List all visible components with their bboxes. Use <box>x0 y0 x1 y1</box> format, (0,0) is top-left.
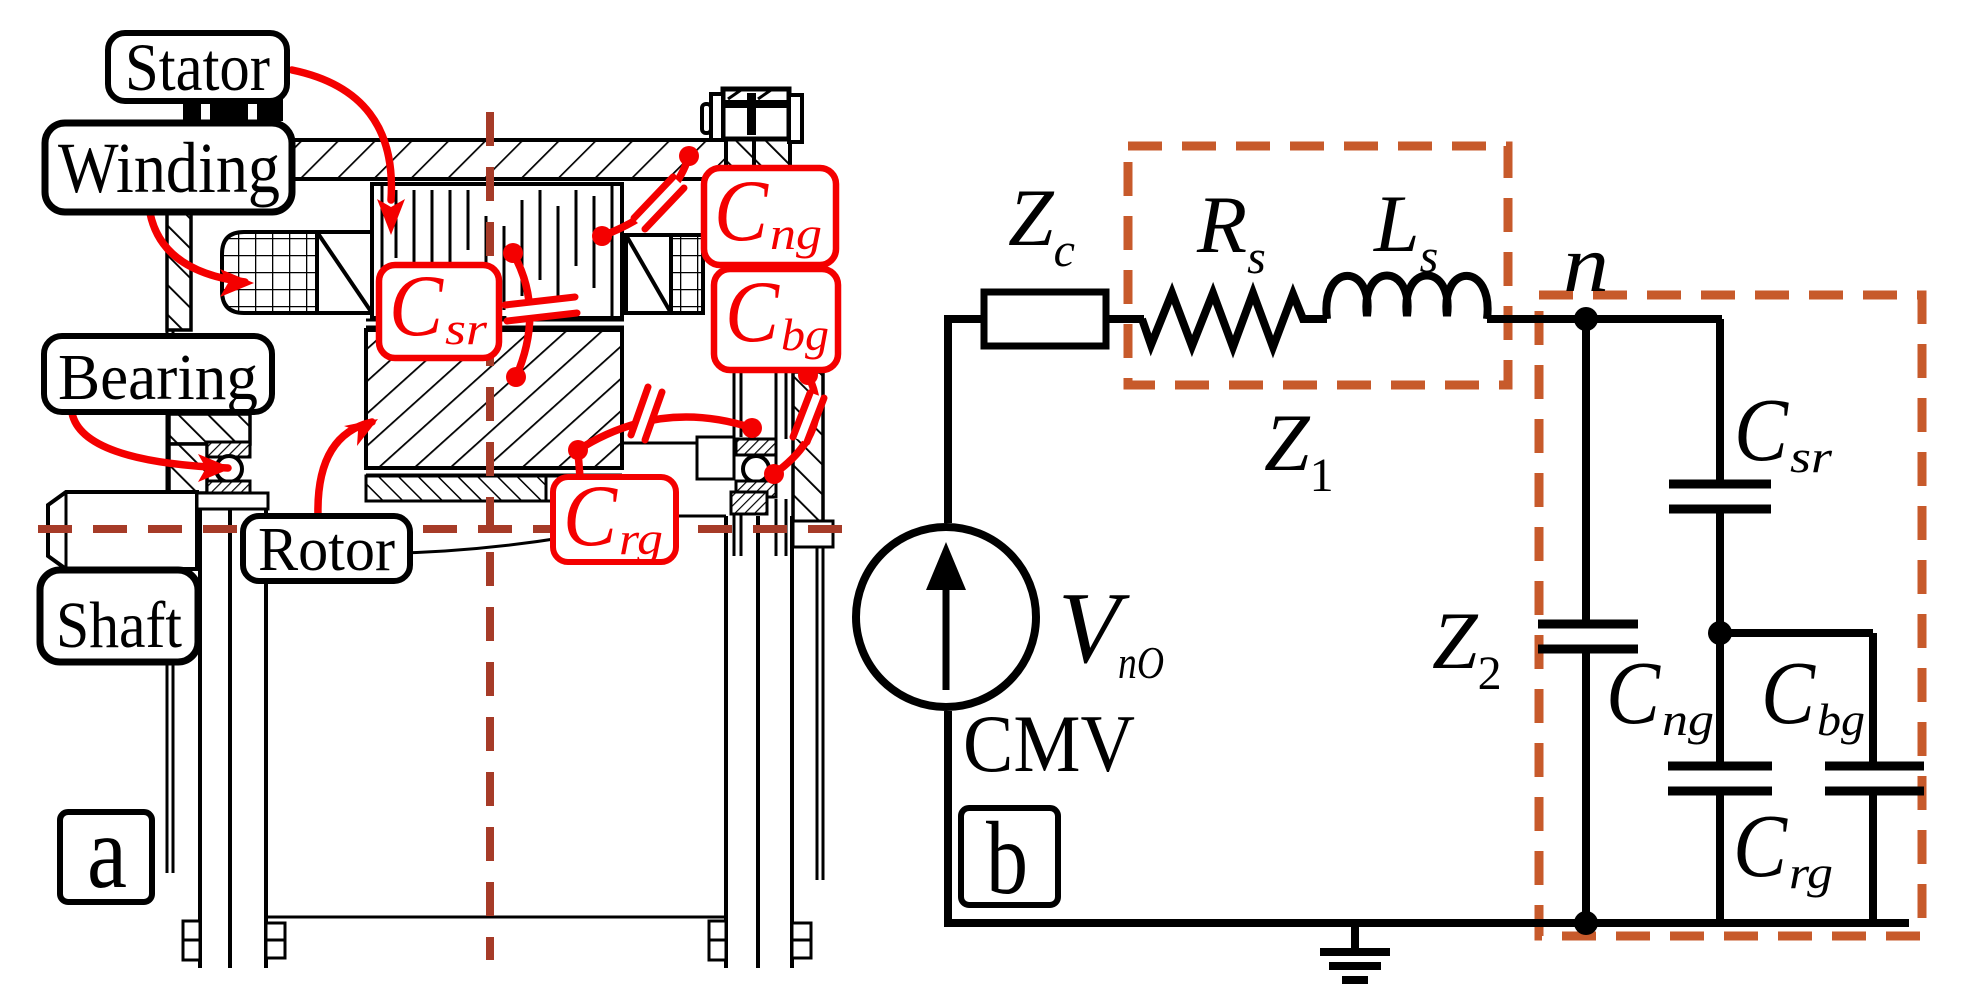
wire junction to Cbg branch <box>1720 629 1873 637</box>
shaft / hub pillars going down <box>198 509 202 968</box>
terminal bolt left (above frame) <box>183 98 283 140</box>
winding left wedge <box>317 232 372 313</box>
centerline horizontal (shaft axis) <box>38 525 845 533</box>
node n <box>1574 307 1598 331</box>
feet bolts <box>183 921 200 960</box>
left casing wall <box>166 179 169 873</box>
svg-text:nO: nO <box>1118 637 1164 688</box>
inductor Ls <box>1326 276 1487 320</box>
bearing (right) <box>736 439 776 455</box>
svg-text:C: C <box>563 468 618 565</box>
svg-text:CMV: CMV <box>963 698 1135 789</box>
stator frame top bar (hatched) <box>168 140 726 179</box>
svg-text:n: n <box>1563 221 1609 309</box>
arrow to winding <box>150 213 245 282</box>
svg-text:C: C <box>725 264 780 361</box>
left end bracket strip (hatched) <box>167 208 191 330</box>
hub under bearing <box>197 493 268 509</box>
bottom joining line <box>266 916 726 919</box>
Cng capacitance curve <box>602 156 689 236</box>
svg-text:ng: ng <box>1662 694 1714 745</box>
Crg capacitance curve <box>578 417 752 450</box>
white gaps for capacitor symbols on red curves <box>506 182 817 440</box>
junction dot on bus <box>1574 911 1598 935</box>
arrow inside source <box>943 580 950 690</box>
svg-text:bg: bg <box>1817 694 1865 745</box>
capacitor (Z2 left branch) plates <box>1538 620 1638 629</box>
red capacitor tick pairs <box>505 177 824 442</box>
shaft end (left, chamfered) <box>48 492 197 569</box>
svg-text:C: C <box>1734 381 1789 480</box>
red label Crg <box>553 477 676 562</box>
dashed box Z2 (capacitance network) <box>1539 295 1922 936</box>
svg-text:ng: ng <box>770 208 822 259</box>
svg-text:C: C <box>714 163 769 260</box>
red label Csr <box>379 265 499 358</box>
arrow to rotor <box>318 422 372 516</box>
svg-text:b: b <box>986 801 1028 916</box>
label Bearing <box>44 336 272 412</box>
arrow to bearing <box>72 413 228 468</box>
ground symbol <box>1320 923 1390 980</box>
wire: left loop from Zc to source and bottom bus <box>948 319 1909 923</box>
label Rotor <box>243 516 410 581</box>
left bearing housing <box>169 414 250 444</box>
svg-text:Stator: Stator <box>125 29 270 105</box>
red junction dots <box>503 146 818 484</box>
label Shaft <box>40 570 198 662</box>
centerline vertical (axis) <box>486 112 494 960</box>
svg-text:Shaft: Shaft <box>56 589 182 662</box>
red label Cng <box>704 168 836 265</box>
resistor Rs <box>1142 293 1327 347</box>
svg-text:Rotor: Rotor <box>258 516 395 584</box>
svg-text:Bearing: Bearing <box>58 341 258 414</box>
hub step at right bearing <box>697 437 734 479</box>
winding right grid <box>671 235 703 313</box>
right bracket hatched strip <box>793 372 823 526</box>
svg-text:C: C <box>389 258 444 355</box>
right end bracket channel <box>733 179 736 437</box>
frame label b <box>961 808 1058 905</box>
svg-text:rg: rg <box>1789 847 1833 898</box>
svg-text:Winding: Winding <box>58 128 280 208</box>
label Stator <box>108 33 287 101</box>
source V_nO (CMV) <box>856 527 1036 707</box>
lamination lines <box>396 190 594 310</box>
svg-text:rg: rg <box>619 513 663 564</box>
winding right wedge <box>626 235 671 313</box>
wire inductor to node n and onward <box>1487 315 1722 323</box>
branch Cng: vertical from node n <box>1582 319 1590 622</box>
eyebolt right (above frame) <box>702 89 802 142</box>
red label Cbg <box>714 269 838 370</box>
bearing (left): races and ball <box>207 442 250 457</box>
svg-text:bg: bg <box>781 309 829 360</box>
svg-text:C: C <box>1733 797 1788 896</box>
Cbg capacitance curve <box>774 375 816 474</box>
right casing wall <box>816 372 819 880</box>
capacitor Cbg (right) <box>1869 633 1877 762</box>
capacitor Csr plates <box>1669 480 1771 489</box>
air gap double lines <box>366 319 624 322</box>
stator core lamination block <box>372 184 622 318</box>
wire Zc to Rs <box>1106 315 1144 323</box>
rotor end ring band <box>366 476 546 501</box>
svg-text:a: a <box>87 795 127 910</box>
capacitor Crg (middle) <box>1716 633 1724 762</box>
svg-text:C: C <box>1606 644 1661 743</box>
svg-text:sr: sr <box>445 303 488 354</box>
junction dot below Csr <box>1708 621 1732 645</box>
impedance Zc box <box>984 292 1106 346</box>
red arrowheads <box>198 199 405 482</box>
svg-text:sr: sr <box>1790 431 1833 482</box>
end winding arc <box>250 527 622 554</box>
arrow to stator <box>292 70 391 200</box>
frame right piece <box>726 136 790 181</box>
dashed box Z1 (stator impedance) <box>1128 146 1508 385</box>
branch Csr <box>1716 319 1724 480</box>
Csr capacitance curve <box>513 253 530 377</box>
winding left (slot cross-section grid) <box>222 232 317 313</box>
air gap step at right <box>622 443 697 479</box>
label Winding <box>45 123 292 212</box>
frame label a <box>60 812 152 902</box>
rotor block (hatched) <box>366 330 622 468</box>
svg-text:C: C <box>1761 644 1816 743</box>
